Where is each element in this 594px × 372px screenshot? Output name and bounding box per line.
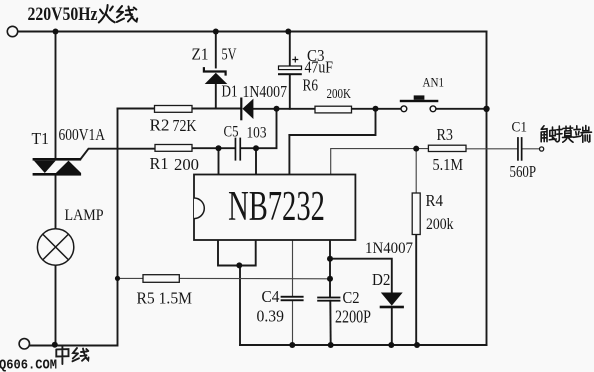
wire lamp to bottom xyxy=(55,265,57,345)
wire R5 row left xyxy=(118,277,144,279)
zener Z1 xyxy=(204,67,227,84)
junction R5 left node xyxy=(115,276,120,281)
junction R4 on bottom bus xyxy=(414,342,420,348)
svg-text:C4: C4 xyxy=(262,287,280,306)
pushbutton AN1 xyxy=(400,95,439,111)
wire C2 bottom xyxy=(329,301,331,345)
wire R6 to AN1 xyxy=(352,108,402,110)
IC pin 1 top xyxy=(218,148,220,174)
svg-text:C2: C2 xyxy=(343,288,360,307)
svg-text:1N4007: 1N4007 xyxy=(365,240,413,257)
label 端 xyxy=(574,126,592,143)
label 线 xyxy=(73,348,89,361)
IC pin 2 top xyxy=(255,148,257,174)
label 摸 xyxy=(557,126,573,142)
svg-text:2200P: 2200P xyxy=(335,306,371,326)
wire D1 node down to C5 node xyxy=(256,109,277,148)
junction C5 right pin node xyxy=(253,145,259,151)
wire AN1 right to bus xyxy=(436,108,487,110)
junction T1 branch on top bus xyxy=(53,29,59,35)
lamp xyxy=(37,229,73,265)
svg-text:5.1M: 5.1M xyxy=(433,155,464,174)
wire D2 row xyxy=(330,259,392,293)
wire R2 to D1 xyxy=(192,108,241,110)
capacitor C1 xyxy=(517,137,522,161)
wire bottom-left bus xyxy=(30,109,118,346)
svg-text:R5 1.5M: R5 1.5M xyxy=(137,289,193,308)
wire C2 branch top xyxy=(329,240,331,297)
wire D2 bottom xyxy=(391,308,393,345)
junction D2 on bottom bus xyxy=(388,342,394,348)
terminal bottom-left xyxy=(19,339,29,349)
svg-text:600V1A: 600V1A xyxy=(59,125,106,144)
svg-text:Z1: Z1 xyxy=(192,45,209,64)
IC pin 3 top xyxy=(288,135,290,175)
svg-text:R2: R2 xyxy=(150,116,170,135)
svg-text:103: 103 xyxy=(247,125,267,142)
capacitor C5 xyxy=(235,138,241,161)
svg-text:560P: 560P xyxy=(510,162,537,181)
svg-text:47uF: 47uF xyxy=(305,58,334,77)
svg-text:T1: T1 xyxy=(32,129,50,148)
wire Z1 branch top xyxy=(215,32,217,68)
wire C4 bottom xyxy=(292,301,294,345)
svg-text:200: 200 xyxy=(174,155,199,174)
junction Z1 branch on top bus xyxy=(213,29,219,35)
op-amp U1 IC NB7232 body xyxy=(194,175,355,241)
resistor R4 xyxy=(412,193,420,235)
junction lamp on bottom-left bus xyxy=(52,342,58,348)
wire vertical to IC pin xyxy=(239,266,241,346)
wire T1 branch upper xyxy=(55,32,57,159)
triac T1 xyxy=(33,158,82,176)
junction R5 right node xyxy=(327,276,333,282)
junction C3 branch on top bus xyxy=(285,29,291,35)
terminal top-left xyxy=(7,26,17,36)
wire bottom-right bus xyxy=(240,344,487,346)
label 火 xyxy=(99,5,137,23)
wire C4 branch top xyxy=(292,240,294,296)
resistor R5 xyxy=(143,275,179,283)
wire top bus xyxy=(18,31,487,33)
svg-text:R3: R3 xyxy=(437,125,454,144)
svg-text:C1: C1 xyxy=(512,120,528,136)
wire Z1 bottom xyxy=(215,84,217,109)
svg-text:220V50Hz: 220V50Hz xyxy=(28,5,98,25)
wire C1 to terminal xyxy=(523,148,540,150)
svg-text:D1: D1 xyxy=(222,82,238,101)
capacitor C4 xyxy=(281,296,304,301)
junction R1 C5 left pin node xyxy=(216,145,222,151)
wire right bus xyxy=(486,32,488,346)
diode D2 xyxy=(380,293,404,309)
svg-text:R4: R4 xyxy=(426,191,444,210)
IC pin bottom sub-rect xyxy=(218,240,256,266)
junction AN1 to right bus xyxy=(483,106,489,112)
wire R6 node to pin3 xyxy=(289,109,375,135)
label 中 xyxy=(56,346,88,364)
wire T1 to lamp xyxy=(55,176,57,230)
svg-text:0.39: 0.39 xyxy=(257,307,285,326)
svg-text:C5: C5 xyxy=(224,124,239,141)
junction D1 cathode node xyxy=(274,106,280,112)
resistor R6 xyxy=(315,106,352,113)
wire C5 right xyxy=(241,147,256,149)
svg-text:D2: D2 xyxy=(372,270,391,289)
resistor R1 xyxy=(155,145,192,152)
junction D2 anode row node xyxy=(327,256,333,262)
terminal touch end xyxy=(540,147,544,151)
diode D1 xyxy=(240,98,253,121)
junction R6 output node xyxy=(373,106,379,112)
svg-text:R6: R6 xyxy=(303,76,319,95)
resistor R3 xyxy=(428,145,466,151)
svg-text:5V: 5V xyxy=(222,45,238,64)
label 线 xyxy=(117,6,137,22)
wire R2 row left xyxy=(118,108,155,110)
svg-text:NB7232: NB7232 xyxy=(228,183,325,230)
svg-text:200K: 200K xyxy=(327,87,352,102)
svg-text:200k: 200k xyxy=(426,216,454,233)
capacitor C2 xyxy=(317,297,340,302)
wire C3 bottom xyxy=(289,75,291,109)
svg-text:72K: 72K xyxy=(173,116,198,135)
junction C2 on bottom bus xyxy=(328,342,334,348)
svg-text:Q606.COM: Q606.COM xyxy=(0,359,57,372)
wire R1 to C5 xyxy=(192,147,235,149)
wire R4 bottom xyxy=(415,235,417,346)
svg-text:AN1: AN1 xyxy=(423,75,445,90)
svg-text:R1: R1 xyxy=(150,154,169,173)
capacitor C3 polarized xyxy=(278,57,302,76)
wire C3 branch top xyxy=(289,32,291,67)
wire D1 to R6 xyxy=(254,108,316,110)
junction R3 R4 node xyxy=(413,146,419,152)
wire R5 row right xyxy=(179,277,330,279)
wire triac gate diagonal xyxy=(81,149,155,159)
resistor R2 xyxy=(155,106,193,113)
wire R3 right to C1 xyxy=(466,148,517,150)
svg-text:LAMP: LAMP xyxy=(65,207,104,224)
svg-text:1N4007: 1N4007 xyxy=(243,82,288,101)
label 触 xyxy=(541,126,591,143)
IC pin 4 top and R3 row start xyxy=(331,149,428,175)
junction C4 on bottom bus xyxy=(289,342,295,348)
wire R4 top xyxy=(415,149,417,193)
junction IC bottom pin pair node xyxy=(236,262,242,268)
